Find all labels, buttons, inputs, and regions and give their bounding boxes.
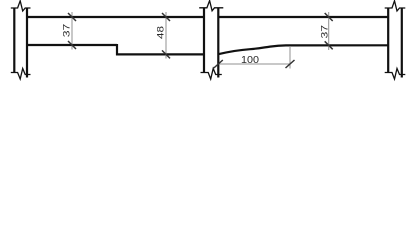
dimension 37 right bottom tick — [325, 41, 333, 49]
dimension 48 bottom tick — [162, 50, 170, 58]
column right flange line 2 — [401, 8, 403, 78]
beam bottom chord left span upper part — [27, 44, 117, 46]
column right flange line 1 — [387, 8, 389, 73]
beam bottom chord right span haunch curve — [218, 45, 388, 54]
dimension 100 right tick — [286, 60, 295, 68]
dimension 37 left extension line — [71, 12, 73, 50]
dimension 100 extension line right — [289, 46, 291, 69]
column middle flange line 1 — [203, 8, 205, 73]
dimension 100 line — [218, 63, 290, 65]
beam top chord right span — [218, 16, 388, 18]
column left flange line 1 — [13, 8, 15, 73]
column right bottom break — [385, 69, 406, 80]
dimension 37 left top tick — [68, 13, 76, 21]
dimension 100 left tick — [214, 60, 223, 68]
column left bottom break — [11, 69, 31, 80]
dimension 48 top tick — [162, 13, 170, 21]
dimension 37 right extension line — [328, 12, 330, 50]
column left top break — [11, 1, 31, 11]
beam bottom step — [116, 44, 118, 55]
svg-text:37: 37 — [62, 24, 73, 38]
beam top chord left span — [27, 16, 204, 18]
dimension 37 right top tick — [325, 13, 333, 21]
beam bottom chord left span lower part — [116, 53, 204, 55]
column right top break — [385, 1, 406, 11]
svg-text:100: 100 — [241, 55, 259, 66]
svg-text:48: 48 — [156, 26, 167, 39]
column left flange line 2 — [26, 8, 28, 78]
svg-text:37: 37 — [319, 25, 330, 39]
dimension 48 extension line — [165, 12, 167, 59]
column middle top break — [199, 1, 223, 11]
column middle bottom break — [201, 69, 222, 80]
dimension 37 left bottom tick — [68, 41, 76, 49]
column middle flange line 2 — [217, 8, 219, 78]
